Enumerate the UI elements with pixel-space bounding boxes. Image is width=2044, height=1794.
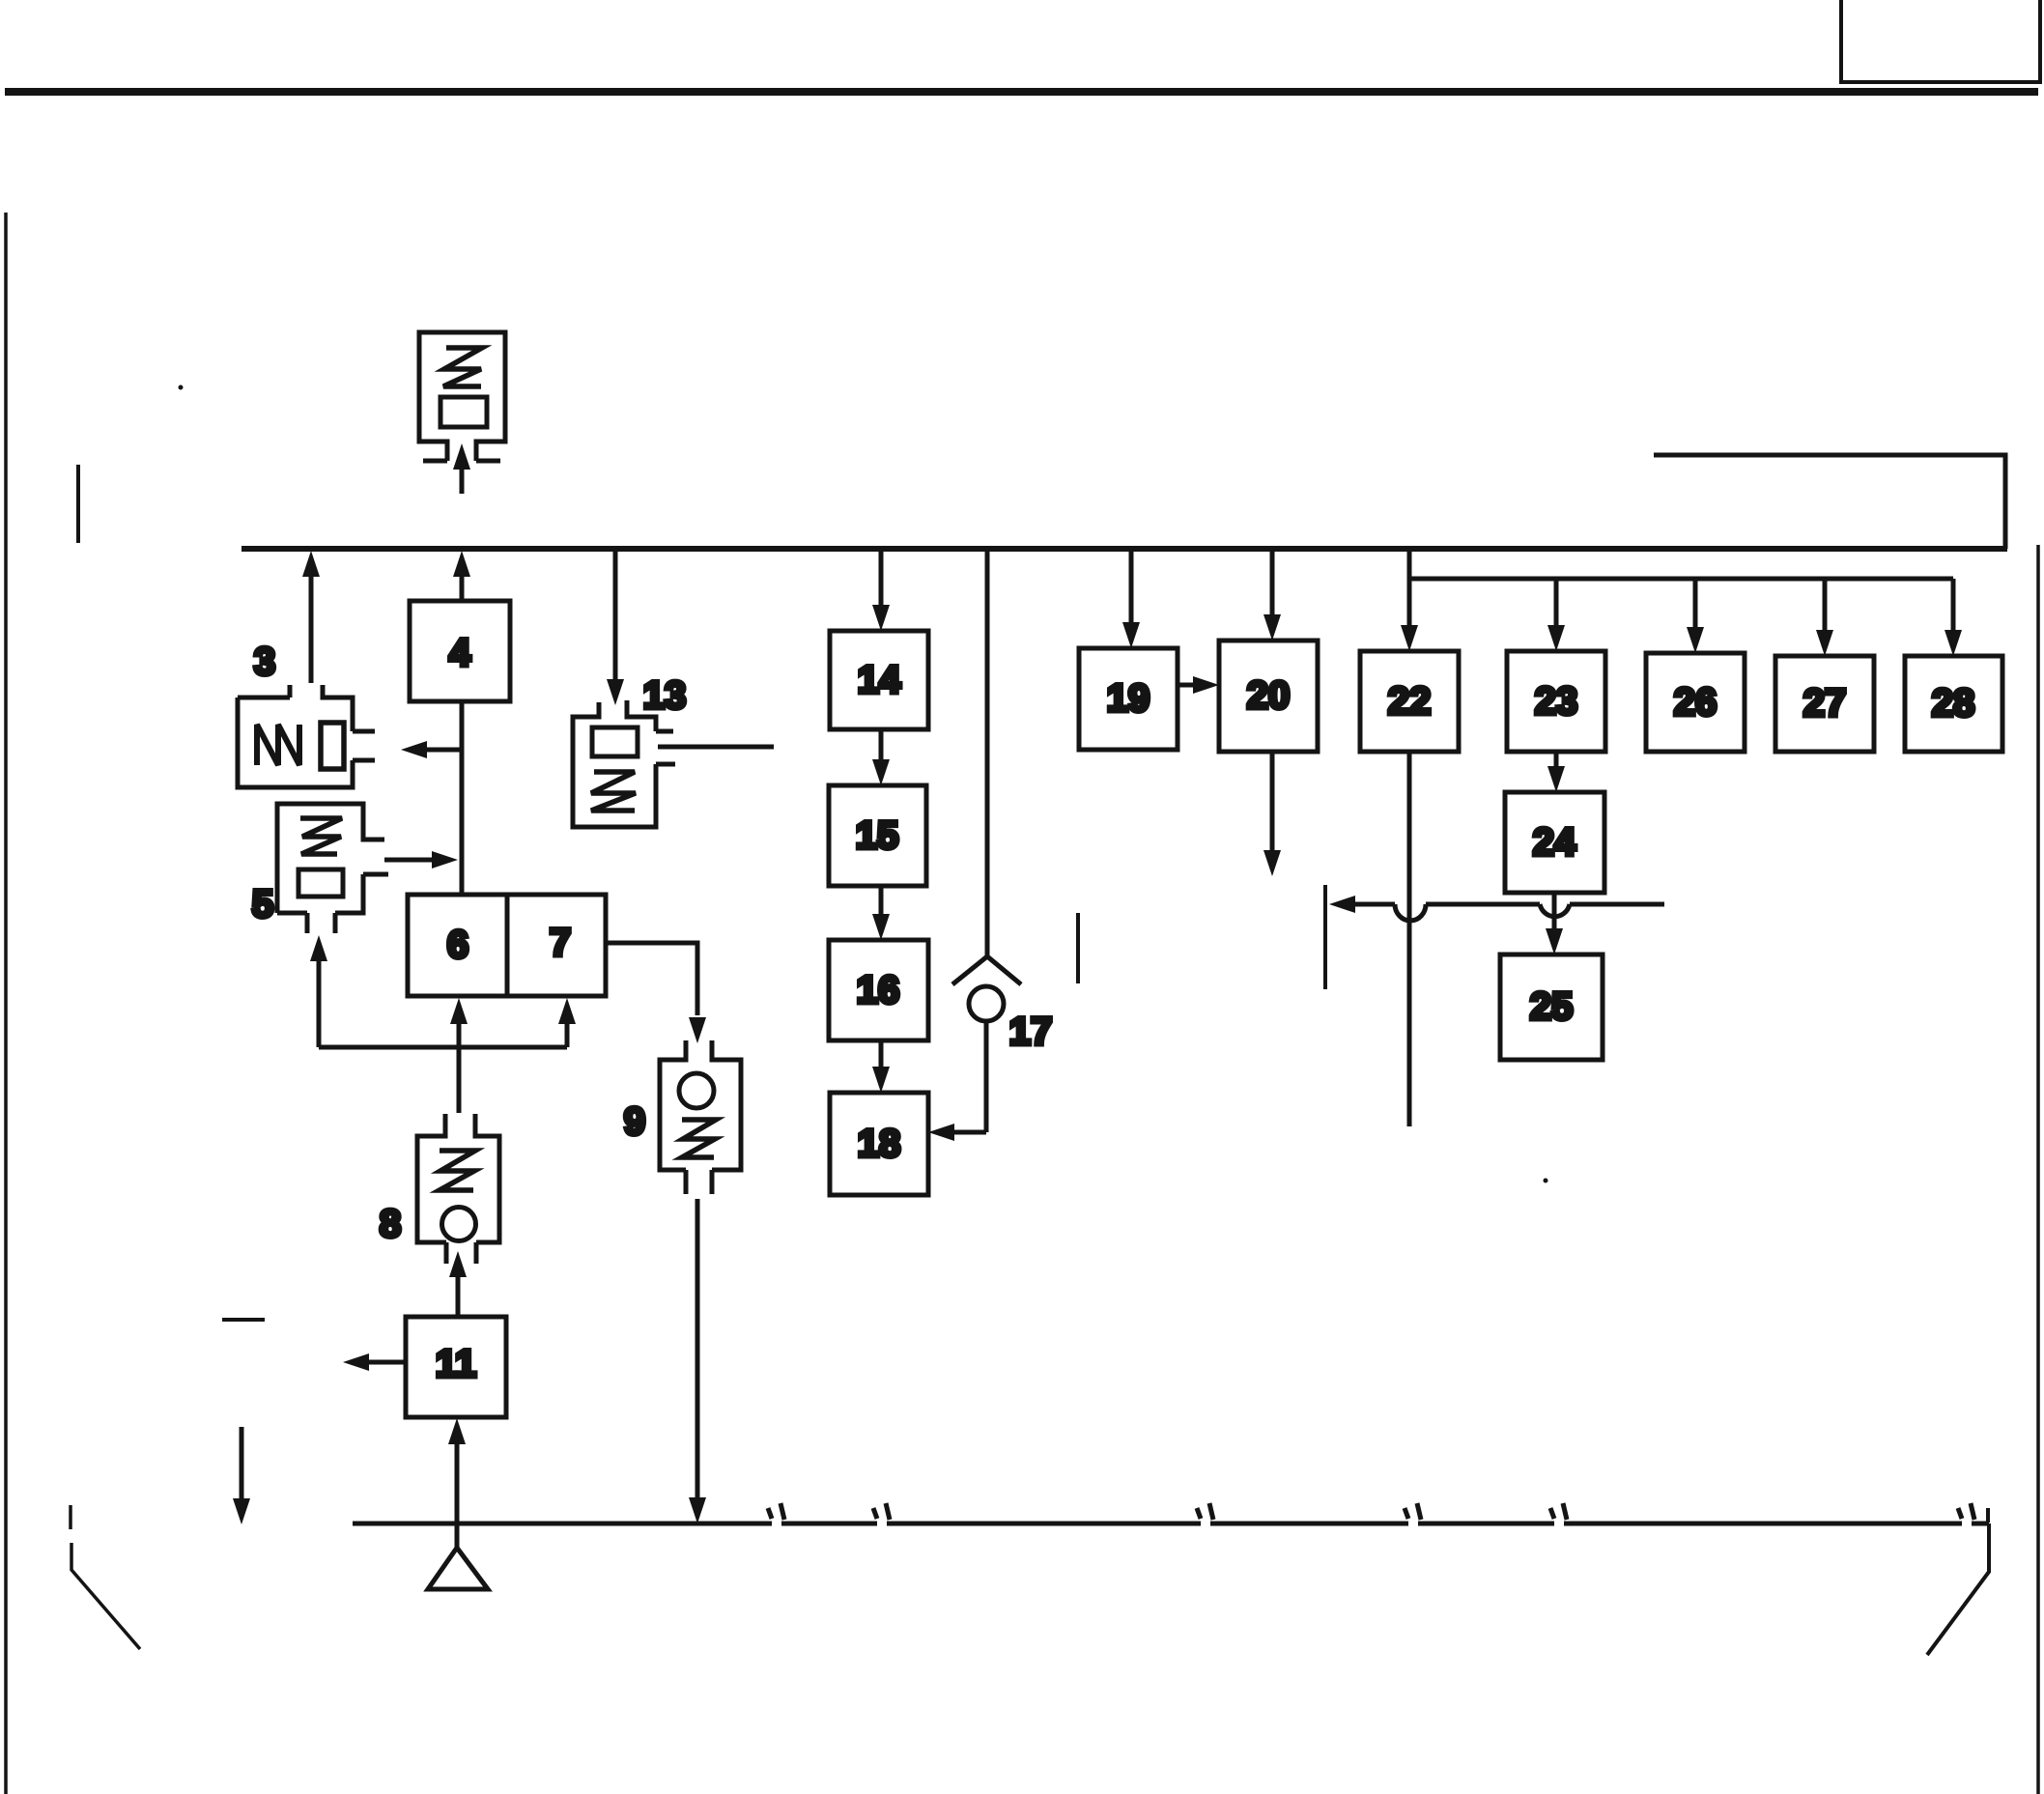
bottom-left corner mark <box>71 1505 140 1649</box>
arrow box 24 to box 25 <box>1552 893 1557 930</box>
distribution drop and rail <box>1409 549 1953 625</box>
component 3 coil <box>257 725 299 765</box>
box 25 <box>1500 954 1603 1060</box>
wire box 7 to component 9 <box>606 943 697 1015</box>
main bus <box>241 546 2007 552</box>
arrow rail to box 27 <box>1823 579 1828 630</box>
merge tick <box>1323 885 1327 989</box>
box 26 <box>1646 653 1745 752</box>
svg-text:28: 28 <box>1932 682 1975 725</box>
component 9 circle <box>679 1073 714 1108</box>
component 17 chevron <box>952 956 1021 984</box>
box 18 <box>830 1093 928 1195</box>
box 19 <box>1079 648 1178 750</box>
component 5 breaker zigzag <box>300 818 342 854</box>
svg-text:13: 13 <box>643 674 687 717</box>
box 27 <box>1775 656 1874 752</box>
dash near box 11 <box>222 1318 265 1322</box>
arrow 14 to 15 <box>879 729 884 761</box>
break mark <box>1550 1503 1567 1520</box>
svg-text:5: 5 <box>252 883 273 925</box>
component 13 zigzag <box>591 772 636 811</box>
component 13 body <box>573 700 675 827</box>
svg-text:6: 6 <box>447 924 468 966</box>
svg-text:3: 3 <box>254 641 275 683</box>
component 2 fuse box <box>440 397 487 427</box>
arrow 23 to 24 <box>1554 752 1559 768</box>
arrow feedback into box 7 <box>565 1022 570 1047</box>
svg-text:24: 24 <box>1533 821 1576 864</box>
right page border <box>2036 545 2040 1794</box>
break mark <box>873 1503 890 1520</box>
speck <box>179 385 184 390</box>
arrow into component 2 <box>460 468 465 494</box>
component 3 body <box>238 685 375 787</box>
svg-text:18: 18 <box>858 1123 901 1165</box>
svg-text:25: 25 <box>1530 985 1574 1028</box>
merge rail with hops <box>1329 896 1355 913</box>
box 20 <box>1219 641 1318 752</box>
arrow component 3 to bus <box>309 576 314 683</box>
wire arrow into component 3 <box>425 748 462 753</box>
arrow feedback into component 5 <box>317 961 322 1047</box>
component 5 fuse box <box>298 869 343 897</box>
component 9 body <box>660 1040 741 1194</box>
svg-text:26: 26 <box>1674 681 1718 724</box>
arrow box 11 to component 8 <box>456 1277 461 1317</box>
arrow component 17 into box 18 <box>954 1130 986 1135</box>
component 8 body <box>417 1114 499 1264</box>
svg-text:15: 15 <box>856 814 899 857</box>
svg-text:14: 14 <box>858 659 901 701</box>
top-right corner box <box>1841 0 2040 82</box>
speck <box>1544 1179 1548 1183</box>
break mark <box>768 1503 784 1520</box>
svg-text:4: 4 <box>449 632 471 674</box>
break mark <box>1197 1503 1213 1520</box>
svg-text:16: 16 <box>857 969 900 1011</box>
arrow box 4 to bus <box>460 576 465 601</box>
wire component 5 to junction <box>384 858 434 863</box>
arrow rail to box 23 <box>1554 579 1559 625</box>
arrow bus to box 14 <box>879 549 884 607</box>
arrow 15 to 16 <box>879 886 884 916</box>
arrow rail to box 28 <box>1951 579 1956 630</box>
arrow bus to box 19 <box>1129 549 1134 624</box>
ground triangle <box>428 1548 488 1589</box>
svg-text:11: 11 <box>436 1343 476 1385</box>
break mark <box>1405 1503 1421 1520</box>
svg-text:27: 27 <box>1803 682 1847 725</box>
ground stem <box>455 1523 460 1548</box>
svg-text:19: 19 <box>1107 677 1150 720</box>
component 8 circle <box>442 1208 476 1241</box>
bottom bus <box>353 1522 1989 1526</box>
middle tick <box>1076 913 1080 983</box>
arrow bus to box 20 <box>1270 549 1275 616</box>
svg-text:17: 17 <box>1009 1011 1053 1053</box>
wire component 13 right <box>658 745 774 750</box>
wire component 8 to box 6 with arrow <box>457 1022 462 1113</box>
box 28 <box>1905 656 2002 752</box>
svg-text:9: 9 <box>624 1100 645 1143</box>
feedback rail <box>319 1045 567 1050</box>
component 5 body <box>277 804 388 933</box>
wire box 22 down <box>1407 752 1412 1126</box>
svg-text:8: 8 <box>380 1203 401 1245</box>
dangling arrow below box 20 <box>1270 752 1275 850</box>
dangling down arrow left <box>240 1427 244 1498</box>
component 2 body <box>419 332 505 461</box>
arrow rail to box 26 <box>1693 579 1698 627</box>
box 23 <box>1507 651 1605 752</box>
wire bus to component 17 <box>985 549 990 956</box>
arrow bus to component 13 <box>613 549 618 681</box>
component 3 contact <box>321 723 344 769</box>
wire component 9 to bottom bus <box>696 1199 700 1498</box>
arrow 16 to 18 <box>879 1040 884 1068</box>
left page border <box>4 213 8 1794</box>
bottom-right corner mark <box>1927 1508 1989 1655</box>
box 22 <box>1360 651 1459 752</box>
component 17 circle <box>969 986 1004 1021</box>
box 4 <box>410 601 510 701</box>
component 9 zigzag <box>682 1120 716 1157</box>
top rule <box>5 88 2038 96</box>
left margin tick <box>76 465 80 543</box>
component 13 fuse box <box>592 727 638 756</box>
svg-text:7: 7 <box>550 922 571 964</box>
wire box 4 to box 6 <box>460 701 465 895</box>
arrow 19 to 20 <box>1178 683 1195 688</box>
break mark <box>1958 1503 1974 1520</box>
box 16 <box>829 940 928 1040</box>
box 14 <box>830 631 928 729</box>
box 24 <box>1505 792 1604 893</box>
arrow out of box 11 left <box>369 1360 406 1365</box>
svg-text:20: 20 <box>1247 674 1291 717</box>
box 15 <box>829 785 926 886</box>
svg-text:22: 22 <box>1388 680 1432 723</box>
component 2 breaker zigzag <box>443 348 482 386</box>
wire component 17 down <box>984 1021 989 1132</box>
svg-text:23: 23 <box>1535 680 1578 723</box>
component 8 zigzag <box>440 1151 475 1190</box>
box 11 <box>406 1317 506 1417</box>
box 6 and 7 <box>408 895 606 996</box>
bus stub top right <box>1654 455 2005 549</box>
arrow bus to box 11 <box>455 1444 460 1523</box>
